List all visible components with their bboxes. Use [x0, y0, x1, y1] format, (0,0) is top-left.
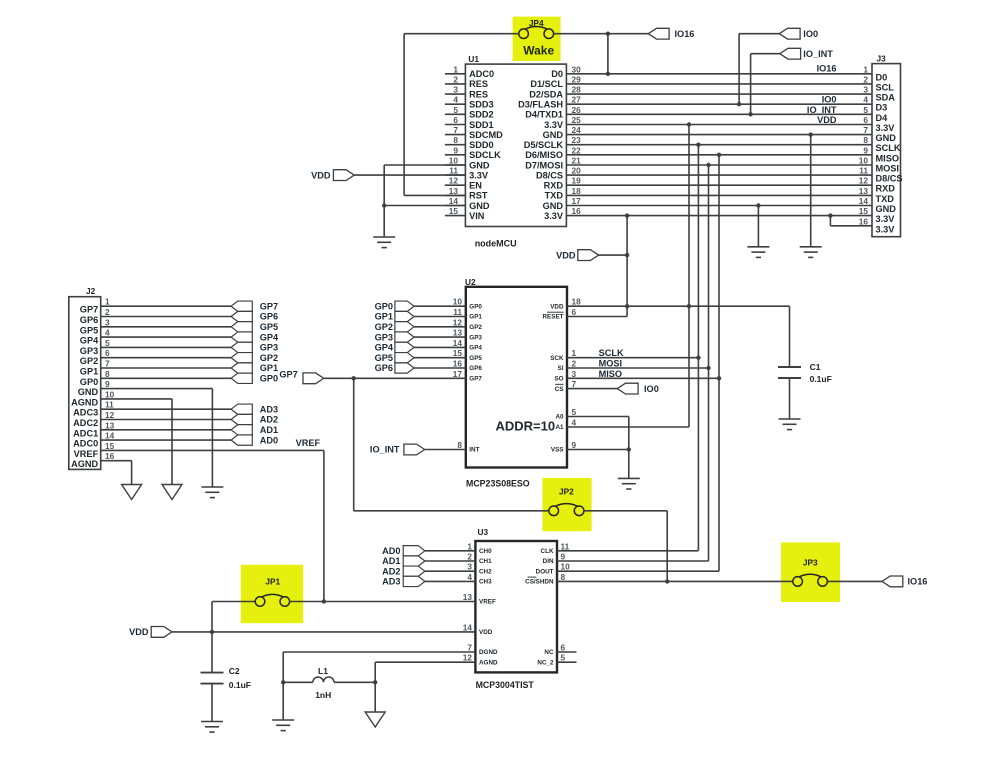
- svg-text:CH2: CH2: [479, 568, 492, 575]
- wire MISO vertical (row9 to U3 DOUT): [718, 155, 720, 571]
- svg-text:GND: GND: [876, 204, 897, 214]
- svg-text:TXD: TXD: [876, 194, 895, 204]
- wire U3 DOUT to MISO vertical: [557, 570, 719, 572]
- svg-text:MOSI: MOSI: [599, 359, 622, 369]
- svg-text:17: 17: [453, 369, 463, 379]
- svg-text:0.1uF: 0.1uF: [229, 680, 251, 690]
- wire GND vertical from row7: [810, 135, 812, 247]
- svg-text:AD1: AD1: [260, 425, 278, 435]
- wire JP2 to U3 CS vertical: [666, 511, 668, 582]
- svg-text:GP2: GP2: [469, 324, 482, 331]
- svg-text:2: 2: [863, 74, 868, 84]
- wire J2 pin 4 to GP4 flag: [101, 336, 231, 338]
- svg-text:JP4: JP4: [529, 18, 544, 28]
- junction VREF at JP1 wire: [322, 599, 326, 603]
- svg-text:AD3: AD3: [260, 404, 278, 414]
- svg-text:GP6: GP6: [469, 365, 482, 372]
- U1 pin 2 (RES) stub: [445, 83, 466, 85]
- svg-text:3.3V: 3.3V: [544, 120, 564, 130]
- wire U2 SI to MOSI vertical: [567, 367, 709, 369]
- wire U2 SCK to SCLK vertical: [567, 357, 698, 359]
- net flag GP4 at U2: [395, 342, 414, 352]
- junction IO_INT on D4 row: [748, 112, 752, 116]
- junction U2 VDD / 3.3V vertical x689: [687, 304, 691, 308]
- svg-text:11: 11: [859, 166, 868, 176]
- svg-text:IO16: IO16: [675, 29, 695, 39]
- svg-text:D6/MISO: D6/MISO: [525, 150, 563, 160]
- ground triangle AGND middle: [162, 485, 182, 500]
- wire D0 vertical to JP4 net: [607, 34, 609, 74]
- net flag GP2 at J2: [231, 353, 252, 363]
- inductor L1: [313, 677, 334, 682]
- svg-text:17: 17: [572, 196, 582, 206]
- U1 pin 5 (SDD2) stub: [445, 113, 466, 115]
- U3 NC stub: [557, 651, 577, 653]
- net flag GP5 at J2: [231, 322, 252, 332]
- svg-text:2: 2: [467, 552, 472, 562]
- wire IO_INT flag to U2 pin8: [425, 449, 466, 451]
- ground earth below J3 right: [800, 246, 822, 248]
- wire GP4 flag to U2: [414, 346, 466, 348]
- junction GND pin14: [382, 203, 386, 207]
- svg-text:GP0: GP0: [80, 377, 98, 387]
- net flag GP4 at J2: [231, 332, 252, 342]
- wire U2 A1 to VDD vertical: [567, 426, 689, 428]
- svg-text:ADDR=10: ADDR=10: [496, 418, 556, 433]
- svg-text:SO: SO: [554, 376, 563, 383]
- wire J2 pin10 AGND horizontal: [101, 398, 172, 400]
- wire L1 right: [334, 681, 375, 683]
- svg-text:IO_INT: IO_INT: [807, 105, 837, 115]
- svg-text:16: 16: [453, 359, 463, 369]
- svg-text:VREF: VREF: [296, 438, 321, 448]
- net flag AD2 at U3: [403, 566, 425, 576]
- svg-text:22: 22: [572, 145, 582, 155]
- svg-text:9: 9: [561, 552, 566, 562]
- svg-text:5: 5: [863, 105, 868, 115]
- svg-text:ADC2: ADC2: [73, 418, 98, 428]
- svg-text:C1: C1: [810, 362, 821, 372]
- svg-text:6: 6: [863, 115, 868, 125]
- junction GND row7: [809, 132, 813, 136]
- svg-text:D5/SCLK: D5/SCLK: [524, 140, 564, 150]
- wire U1 pin 16 to J3 pin 15: [566, 215, 872, 217]
- svg-text:VREF: VREF: [74, 449, 99, 459]
- net flag AD0 at U3: [403, 546, 425, 556]
- net flag IO_INT at U2: [404, 444, 425, 455]
- wire SCLK vertical (row8 to U3 CLK): [697, 145, 699, 551]
- svg-text:GP4: GP4: [260, 332, 279, 342]
- svg-text:AGND: AGND: [71, 459, 98, 469]
- net flag GP0 at U2: [395, 301, 414, 311]
- svg-text:1: 1: [453, 64, 458, 74]
- wire U2 A0 horizontal: [567, 416, 629, 418]
- svg-text:AD2: AD2: [382, 566, 400, 576]
- svg-text:26: 26: [572, 105, 582, 115]
- wire U3 DGND horizontal: [283, 651, 475, 653]
- svg-text:GP0: GP0: [469, 303, 482, 310]
- svg-text:11: 11: [561, 541, 570, 551]
- junction GP7 to JP2 branch: [352, 376, 356, 380]
- svg-text:SDD2: SDD2: [469, 110, 494, 120]
- svg-text:6: 6: [572, 307, 577, 317]
- svg-text:18: 18: [572, 297, 582, 307]
- svg-text:VIN: VIN: [469, 211, 485, 221]
- svg-text:GP4: GP4: [80, 336, 99, 346]
- svg-text:1: 1: [863, 64, 868, 74]
- wire U2 CS to IO0 flag: [567, 388, 617, 390]
- wire VREF vertical: [323, 450, 325, 601]
- svg-text:SDCLK: SDCLK: [469, 150, 501, 160]
- svg-text:1: 1: [105, 297, 110, 307]
- svg-text:MISO: MISO: [599, 369, 622, 379]
- junction JP4 net / D0 vertical: [606, 32, 610, 36]
- junction IO0 on D3 row: [737, 102, 741, 106]
- capacitor C2: [201, 672, 224, 674]
- svg-text:GP5: GP5: [375, 353, 393, 363]
- svg-text:15: 15: [449, 206, 459, 216]
- junction VDD row at C2: [210, 630, 214, 634]
- wire U3 AGND horizontal: [375, 661, 475, 663]
- wire J2 pin9 GND horizontal: [101, 388, 213, 390]
- net flag GP7 at J2: [231, 301, 252, 311]
- U1 pin 12 (EN) stub: [445, 184, 466, 186]
- svg-text:10: 10: [453, 297, 463, 307]
- svg-text:7: 7: [105, 359, 110, 369]
- connector J2 body: [69, 297, 101, 470]
- wire J2 pin 1 to GP7 flag: [101, 305, 231, 307]
- svg-text:VSS: VSS: [551, 447, 564, 454]
- svg-text:16: 16: [859, 216, 869, 226]
- svg-text:20: 20: [572, 166, 582, 176]
- svg-text:GP1: GP1: [469, 314, 482, 321]
- jumper JP1 symbol: [255, 597, 265, 607]
- svg-text:AD0: AD0: [382, 546, 400, 556]
- net flag AD3 at U3: [403, 576, 425, 586]
- net flag GP7 single: [303, 373, 324, 384]
- wire J3 pin 16 branch horizontal: [830, 225, 872, 227]
- junction SI/MOSI: [706, 366, 710, 370]
- net flag IO16 at JP3: [882, 576, 903, 587]
- junction MOSI row10: [706, 163, 710, 167]
- svg-text:14: 14: [105, 431, 115, 441]
- wire DGND vertical: [282, 652, 284, 720]
- wire U1 pin 23 to J3 pin 8: [566, 144, 872, 146]
- svg-text:4: 4: [105, 328, 110, 338]
- IC U1 nodeMCU body: [465, 64, 566, 226]
- svg-text:DOUT: DOUT: [536, 568, 554, 575]
- svg-text:RXD: RXD: [544, 181, 564, 191]
- svg-text:3.3V: 3.3V: [469, 170, 489, 180]
- svg-text:JP1: JP1: [265, 576, 280, 586]
- wire IO0 vertical to D3 row: [738, 34, 740, 105]
- U1 pin 3 (RES) stub: [445, 93, 466, 95]
- svg-text:D3: D3: [876, 103, 888, 113]
- svg-text:VDD: VDD: [550, 303, 564, 310]
- ground earth below U1 left: [373, 236, 395, 238]
- svg-text:TXD: TXD: [545, 191, 564, 201]
- svg-text:AD2: AD2: [260, 415, 278, 425]
- svg-text:11: 11: [449, 166, 458, 176]
- svg-text:IO0: IO0: [644, 384, 659, 394]
- net flag GP0 at J2: [231, 373, 252, 383]
- svg-text:U3: U3: [478, 527, 489, 537]
- svg-text:D1/SCL: D1/SCL: [530, 79, 563, 89]
- svg-text:30: 30: [572, 64, 582, 74]
- svg-text:25: 25: [572, 115, 582, 125]
- svg-text:VDD: VDD: [311, 170, 331, 180]
- svg-text:U1: U1: [468, 54, 479, 64]
- svg-text:NC: NC: [544, 649, 554, 656]
- net flag VDD left: [333, 170, 354, 181]
- wire J2 pin9 GND vertical: [211, 389, 213, 487]
- svg-text:7: 7: [572, 379, 577, 389]
- svg-text:SDD3: SDD3: [469, 100, 494, 110]
- svg-text:GP6: GP6: [80, 315, 98, 325]
- svg-text:IO0: IO0: [822, 95, 837, 105]
- svg-text:9: 9: [572, 440, 577, 450]
- wire C2 bottom: [211, 684, 213, 722]
- net flag GP1 at J2: [231, 363, 252, 373]
- wire AD2 flag to U3 CH2: [425, 570, 476, 572]
- U1 pin 11 (3.3V) stub: [445, 174, 466, 176]
- net flag AD1 at J2: [231, 425, 252, 435]
- wire U1 pin 26 to J3 pin 5: [566, 113, 872, 115]
- svg-text:U2: U2: [465, 277, 476, 287]
- svg-text:3.3V: 3.3V: [876, 224, 896, 234]
- svg-text:ADC1: ADC1: [73, 428, 98, 438]
- svg-text:J3: J3: [877, 54, 887, 64]
- wire AD0 flag to U3 CH0: [425, 550, 476, 552]
- wire AGND vertical: [374, 662, 376, 712]
- jumper JP4 symbol: [519, 29, 529, 39]
- net flag AD0 at J2: [231, 435, 252, 445]
- svg-text:27: 27: [572, 95, 582, 105]
- svg-text:AGND: AGND: [71, 397, 98, 407]
- junction GND row14: [756, 203, 760, 207]
- svg-text:C2: C2: [229, 666, 240, 676]
- svg-text:VREF: VREF: [479, 599, 496, 606]
- wire RST vertical: [403, 34, 405, 196]
- wire U1 pin 28 to J3 pin 3: [566, 93, 872, 95]
- jumper JP1 highlight: [241, 565, 303, 623]
- wire U1 pin 17 to J3 pin 14: [566, 205, 872, 207]
- svg-text:SCLK: SCLK: [599, 348, 624, 358]
- net flag GP2 at U2: [395, 322, 414, 332]
- svg-text:GP1: GP1: [260, 363, 278, 373]
- junction AGND / L1 right: [373, 680, 377, 684]
- svg-text:ADC0: ADC0: [73, 439, 98, 449]
- svg-text:11: 11: [453, 307, 462, 317]
- net flag VDD middle: [578, 250, 599, 261]
- svg-text:GP1: GP1: [80, 367, 98, 377]
- svg-text:13: 13: [463, 592, 473, 602]
- U2 pin name RESET overline: [547, 311, 564, 313]
- wire U1 pin 21 to J3 pin 10: [566, 164, 872, 166]
- ground triangle AGND left: [122, 485, 142, 500]
- jumper JP4 highlight: [513, 17, 561, 61]
- svg-text:MCP3004TIST: MCP3004TIST: [476, 680, 535, 690]
- svg-text:15: 15: [859, 206, 869, 216]
- U1 pin 4 (SDD3) stub: [445, 103, 466, 105]
- jumper JP2 symbol: [549, 506, 559, 516]
- wire IO_INT vertical to D4 row: [750, 54, 752, 115]
- svg-text:13: 13: [105, 420, 115, 430]
- svg-text:18: 18: [572, 186, 582, 196]
- U3 NC_2 stub: [557, 661, 577, 663]
- svg-text:7: 7: [453, 125, 458, 135]
- svg-text:GP6: GP6: [260, 312, 278, 322]
- wire U3 CLK to SCLK vertical: [557, 550, 698, 552]
- wire AD1 flag to U3 CH1: [425, 560, 476, 562]
- svg-text:9: 9: [863, 145, 868, 155]
- U1 pin 10 (GND) stub: [445, 164, 466, 166]
- svg-text:D0: D0: [551, 69, 563, 79]
- svg-text:Wake: Wake: [523, 44, 554, 58]
- svg-text:3: 3: [572, 369, 577, 379]
- svg-text:3.3V: 3.3V: [876, 214, 896, 224]
- svg-text:23: 23: [572, 135, 582, 145]
- svg-text:9: 9: [105, 379, 110, 389]
- junction VSS/A0: [627, 447, 631, 451]
- svg-text:SDA: SDA: [876, 93, 896, 103]
- wire GND vertical from row14: [757, 206, 759, 247]
- svg-text:GND: GND: [543, 201, 564, 211]
- svg-text:INT: INT: [469, 447, 479, 454]
- svg-text:DIN: DIN: [543, 558, 554, 565]
- svg-text:4: 4: [467, 572, 472, 582]
- svg-text:D4/TXD1: D4/TXD1: [525, 110, 563, 120]
- wire J2 pin16 AGND vertical: [131, 461, 133, 485]
- junction 3.3V row15: [625, 213, 629, 217]
- net flag VDD bottom: [151, 627, 172, 638]
- junction SO/MISO: [717, 376, 721, 380]
- wire RST to JP4 left: [404, 33, 519, 35]
- wire GP7 flag to U2 pin17: [324, 377, 466, 379]
- junction VDD mid: [625, 253, 629, 257]
- svg-text:IO_INT: IO_INT: [370, 445, 400, 455]
- wire U3 DIN to MOSI vertical: [557, 560, 709, 562]
- wire U1 pin10 GND: [384, 164, 465, 166]
- U3 CS overline: [528, 576, 537, 578]
- IC U2 MCP23S08 body: [466, 287, 567, 468]
- svg-text:8: 8: [561, 572, 566, 582]
- wire L1 left: [283, 681, 313, 683]
- wire U2 RESET to 3.3V vertical: [567, 316, 627, 318]
- net flag GP3 at J2: [231, 342, 252, 352]
- connector J3 body: [872, 64, 901, 237]
- wire U2 SO to MISO vertical: [567, 377, 719, 379]
- wire GP0 flag to U2: [414, 305, 466, 307]
- svg-text:GP3: GP3: [375, 332, 393, 342]
- U1 pin 8 (SDD0) stub: [445, 144, 466, 146]
- svg-text:SI: SI: [558, 365, 564, 372]
- IC U3 MCP3004 body: [475, 541, 557, 672]
- wire GP6 flag to U2: [414, 367, 466, 369]
- svg-text:GP2: GP2: [260, 353, 278, 363]
- svg-text:GP0: GP0: [260, 374, 278, 384]
- svg-text:RES: RES: [469, 89, 488, 99]
- svg-text:DGND: DGND: [479, 649, 498, 656]
- svg-text:D8/CS: D8/CS: [876, 174, 903, 184]
- svg-text:GP2: GP2: [375, 322, 393, 332]
- wire VDD flag to U1 pin11: [354, 174, 465, 176]
- svg-text:CS/SHDN: CS/SHDN: [525, 579, 554, 586]
- svg-text:13: 13: [449, 186, 459, 196]
- svg-text:GP1: GP1: [375, 312, 393, 322]
- svg-text:10: 10: [561, 562, 571, 572]
- svg-text:2: 2: [453, 74, 458, 84]
- capacitor C1: [778, 366, 801, 368]
- svg-text:19: 19: [572, 176, 582, 186]
- svg-text:11: 11: [105, 400, 114, 410]
- svg-text:14: 14: [453, 338, 463, 348]
- wire U2 A0 vertical to VSS: [628, 417, 630, 479]
- svg-text:VDD: VDD: [479, 629, 493, 636]
- svg-text:RST: RST: [469, 191, 488, 201]
- svg-text:CH0: CH0: [479, 548, 492, 555]
- svg-text:13: 13: [453, 328, 463, 338]
- junction DGND / L1 left: [281, 680, 285, 684]
- wire J2 pin 11 to AD3 flag: [101, 408, 231, 410]
- ground earth below DGND: [272, 719, 294, 721]
- svg-text:4: 4: [453, 95, 458, 105]
- U1 pin 14 (GND) stub: [445, 205, 466, 207]
- svg-text:A0: A0: [555, 414, 564, 421]
- wire J2 pin 8 to GP0 flag: [101, 377, 231, 379]
- svg-text:GP5: GP5: [469, 355, 482, 362]
- svg-text:3: 3: [467, 562, 472, 572]
- svg-text:15: 15: [105, 441, 115, 451]
- wire RST horizontal to U1 pin13: [404, 194, 465, 196]
- svg-text:4: 4: [572, 418, 577, 428]
- svg-text:6: 6: [105, 348, 110, 358]
- svg-text:GND: GND: [469, 201, 490, 211]
- svg-text:5: 5: [105, 338, 110, 348]
- svg-text:3: 3: [105, 317, 110, 327]
- svg-text:AD1: AD1: [382, 556, 400, 566]
- svg-text:AD3: AD3: [382, 577, 400, 587]
- svg-text:3.3V: 3.3V: [876, 123, 896, 133]
- svg-text:MCP23S08ESO: MCP23S08ESO: [466, 479, 530, 489]
- wire U1 pin 24 to J3 pin 7: [566, 134, 872, 136]
- svg-text:ADC3: ADC3: [73, 408, 98, 418]
- U1 pin 13 (RST) stub: [445, 194, 466, 196]
- svg-text:13: 13: [859, 186, 869, 196]
- svg-text:12: 12: [105, 410, 115, 420]
- wire J2 pin 13 to AD1 flag: [101, 429, 231, 431]
- wire JP2 right horizontal: [584, 510, 667, 512]
- net flag GP6 at U2: [395, 363, 414, 373]
- svg-text:GND: GND: [78, 387, 99, 397]
- svg-text:12: 12: [859, 176, 869, 186]
- svg-text:2: 2: [572, 359, 577, 369]
- wire GND vertical left of U1: [383, 165, 385, 237]
- svg-text:RXD: RXD: [876, 184, 896, 194]
- svg-text:16: 16: [105, 451, 115, 461]
- wire JP1 vertical to VDD row: [211, 602, 213, 673]
- junction SCK/SCLK: [696, 356, 700, 360]
- wire J2 pin 6 to GP2 flag: [101, 357, 231, 359]
- svg-text:14: 14: [859, 196, 869, 206]
- svg-text:AGND: AGND: [479, 659, 498, 666]
- wire J2 pin10 AGND vertical: [171, 399, 173, 485]
- svg-text:8: 8: [457, 440, 462, 450]
- net flag GP1 at U2: [395, 311, 414, 321]
- svg-text:AD0: AD0: [260, 435, 278, 445]
- wire U1 pin 27 to J3 pin 4: [566, 103, 872, 105]
- net flag GP6 at J2: [231, 311, 252, 321]
